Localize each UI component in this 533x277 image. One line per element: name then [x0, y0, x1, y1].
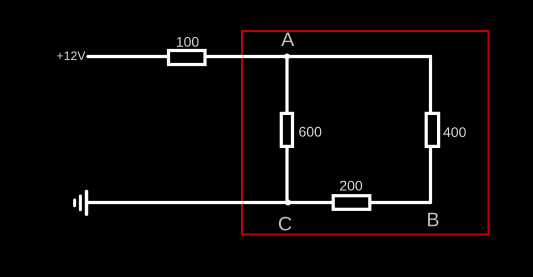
resistor R4 200	[333, 196, 370, 210]
node B label	[428, 213, 438, 226]
highlight box (red loop region)	[242, 31, 489, 235]
resistor R2 600	[281, 113, 292, 146]
resistor R3 400	[426, 113, 438, 146]
resistor R1 100	[169, 51, 206, 65]
wire top rail from +12V to corner and down right side	[88, 57, 431, 203]
value label 600	[299, 127, 321, 137]
value label 200	[340, 181, 362, 191]
wire bottom rail from ground to B	[87, 201, 431, 204]
wire middle branch A to C	[285, 57, 288, 203]
value label 100	[177, 37, 199, 47]
value label 400	[443, 127, 466, 137]
node C junction dot	[285, 200, 291, 206]
supply label +12V	[57, 51, 85, 60]
node A label	[281, 33, 294, 46]
ground	[75, 192, 87, 215]
node C label	[279, 217, 291, 231]
node A junction dot	[284, 54, 290, 60]
